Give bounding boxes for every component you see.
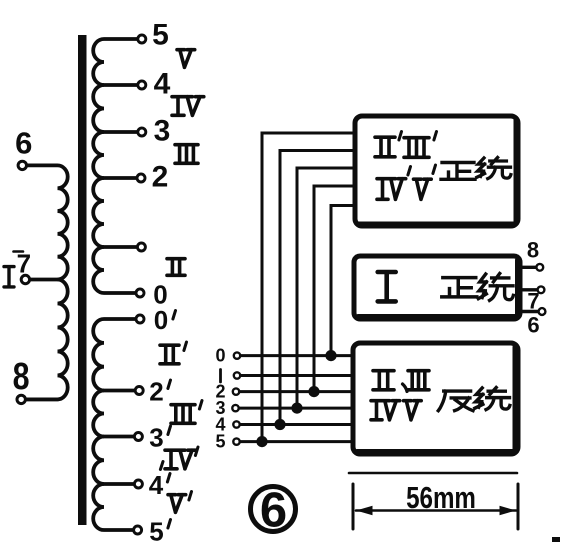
label 2prime	[149, 377, 170, 407]
wire stub terminal 8	[520, 266, 536, 269]
terminal 6 of box B	[539, 308, 546, 315]
terminal 0	[136, 289, 144, 297]
box A label IVprime	[377, 167, 411, 200]
label IIIprime	[171, 401, 202, 424]
patch label 3	[215, 398, 225, 418]
terminal 7	[21, 275, 29, 283]
terminal 5	[138, 35, 146, 43]
box A label IIprime	[375, 132, 402, 157]
terminal 6	[18, 161, 26, 169]
patch label 0	[215, 346, 225, 366]
wire riser from node 5 to box A	[262, 133, 356, 442]
wire 4 horizontal	[240, 423, 354, 426]
svg-text:6: 6	[15, 126, 32, 161]
dimension end bar right	[517, 484, 520, 529]
label 6 of box B	[527, 313, 539, 338]
junction node 3	[291, 403, 302, 414]
label I winding	[4, 267, 14, 287]
label 0prime	[154, 305, 176, 335]
wire lead terminal 2	[104, 176, 136, 180]
svg-text:2: 2	[152, 161, 169, 194]
label IVprime	[160, 447, 198, 470]
label 4prime	[149, 470, 170, 500]
label 8 of box B	[527, 238, 539, 263]
label 5	[152, 19, 169, 52]
svg-text:8: 8	[13, 356, 30, 398]
wire lead terminal 4	[104, 83, 137, 87]
label 8	[13, 356, 30, 398]
patch label 1	[219, 370, 222, 383]
label IV	[172, 97, 204, 116]
secondary winding lower coil	[93, 319, 136, 530]
box C label fan (reverse)	[438, 391, 473, 411]
terminal 4prime	[134, 480, 142, 488]
box B label zheng (forward)	[442, 278, 477, 297]
svg-text:3: 3	[149, 423, 163, 453]
wire lead terminal 4prime	[104, 482, 134, 486]
patch terminal 1	[234, 372, 240, 378]
terminal 7 of box B	[538, 286, 545, 293]
terminal 5prime	[134, 526, 142, 534]
svg-text:0: 0	[215, 346, 225, 366]
terminal 2	[137, 174, 145, 182]
box A label IIIprime	[404, 132, 437, 158]
label 7	[14, 249, 32, 279]
svg-text:4: 4	[149, 470, 164, 500]
patch label 4	[215, 415, 225, 435]
terminal 8	[17, 395, 25, 403]
unnumbered tap terminal	[137, 243, 145, 251]
label 4	[154, 68, 171, 101]
svg-text:0: 0	[154, 305, 168, 335]
svg-text:56mm: 56mm	[406, 480, 476, 515]
svg-text:3: 3	[154, 115, 171, 148]
wire lead terminal 8	[25, 397, 58, 401]
terminal 0prime	[136, 315, 144, 323]
box C label III	[408, 371, 429, 390]
svg-text:8: 8	[527, 238, 539, 263]
box C label IV	[371, 401, 400, 420]
label 2	[152, 161, 169, 194]
terminal 4	[138, 81, 146, 89]
label III	[175, 145, 198, 164]
svg-text:5: 5	[215, 432, 225, 452]
box C label rao (wind)	[475, 388, 510, 410]
dimension label 56mm	[406, 480, 476, 515]
label 0	[153, 280, 167, 310]
wire stub terminal 6	[520, 310, 538, 313]
wire lead terminal 3prime	[104, 435, 134, 439]
terminal 3	[138, 128, 146, 136]
wire 0 horizontal	[241, 354, 355, 357]
wire lead terminal 7	[29, 278, 58, 282]
winding I coil	[25, 165, 68, 399]
label 3	[154, 115, 171, 148]
svg-text:2: 2	[149, 377, 163, 407]
transformer core	[78, 35, 87, 525]
wire 2 horizontal	[240, 390, 355, 393]
junction node 0	[325, 350, 336, 361]
wire riser from node 0 to box A	[331, 206, 356, 356]
box A label zheng (forward)	[441, 163, 475, 180]
svg-text:6: 6	[260, 484, 287, 538]
wire 5 horizontal	[240, 440, 354, 443]
box A label rao (wind)	[477, 158, 511, 179]
wire riser from node 3 to box A	[297, 168, 356, 408]
label 3prime	[149, 423, 170, 453]
box B label rao (wind)	[478, 274, 513, 301]
label V	[177, 50, 195, 68]
box A (windings IIp IIIp IVp Vp wound forward)	[355, 116, 518, 226]
label 7 of box B	[527, 289, 539, 314]
secondary winding upper coil	[93, 39, 137, 293]
box C label V	[404, 401, 422, 420]
speck bottom right	[552, 537, 560, 542]
label Vprime	[168, 492, 192, 513]
wire riser from node 2 to box A	[314, 186, 356, 392]
terminal 3prime	[134, 433, 142, 441]
wire 3 horizontal	[239, 407, 354, 410]
junction node 2	[308, 386, 319, 397]
patch label 5	[215, 432, 225, 452]
terminal 2prime	[135, 387, 143, 395]
patch terminal 3	[232, 405, 238, 411]
terminal 8 of box B	[536, 264, 543, 271]
label II	[167, 259, 185, 276]
patch terminal 4	[233, 421, 239, 427]
box C (windings II III IV V wound reverse)	[353, 343, 518, 454]
label 6	[15, 126, 32, 161]
dimension end bar left	[352, 484, 355, 529]
patch terminal 2	[233, 388, 239, 394]
label 5prime	[149, 517, 170, 547]
dimension extension line	[349, 472, 517, 475]
patch terminal 0	[234, 352, 240, 358]
box B label I	[378, 272, 396, 301]
wire lead unnumbered tap	[104, 245, 136, 249]
svg-text:5: 5	[149, 517, 163, 547]
wire riser from node 4 to box A	[280, 151, 356, 425]
wire lead terminal 3	[104, 130, 137, 134]
callout number 6	[251, 484, 296, 538]
patch label 2	[215, 382, 225, 402]
box A label Vprime	[414, 165, 436, 199]
box C label II	[373, 371, 394, 390]
svg-text:5: 5	[152, 19, 169, 52]
wire 1 horizontal	[241, 374, 355, 377]
dimension line with arrows	[356, 506, 516, 515]
box B (winding I wound forward)	[354, 256, 520, 319]
svg-text:6: 6	[527, 313, 539, 338]
junction node 5	[256, 436, 267, 447]
svg-text:7: 7	[17, 249, 31, 279]
label IIprime	[160, 342, 187, 364]
svg-text:4: 4	[154, 68, 171, 101]
wire stub terminal 7	[520, 288, 537, 291]
wire lead terminal 2prime	[104, 389, 135, 393]
junction node 4	[274, 419, 285, 430]
patch terminal 5	[233, 438, 239, 444]
box C ideographic comma	[403, 384, 408, 392]
